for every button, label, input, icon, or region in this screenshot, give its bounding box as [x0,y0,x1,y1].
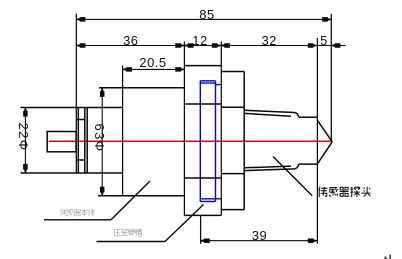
svg-text:32: 32 [261,33,276,48]
svg-text:20.5: 20.5 [139,55,166,70]
svg-text:5: 5 [320,33,328,48]
svg-text:85: 85 [199,7,214,22]
svg-text:36: 36 [123,33,138,48]
svg-text:22Φ: 22Φ [16,122,31,151]
svg-text:39: 39 [252,228,267,243]
svg-text:63Φ: 63Φ [92,123,107,152]
svg-text:12: 12 [192,33,207,48]
